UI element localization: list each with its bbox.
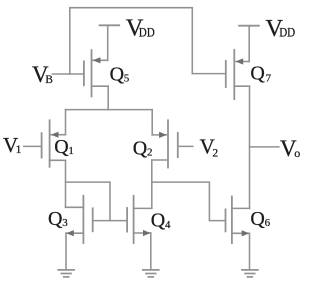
svg-text:Q: Q [133, 137, 148, 159]
svg-text:3: 3 [62, 217, 68, 229]
wire output tap to Vo [250, 146, 279, 148]
svg-text:Q: Q [48, 208, 63, 230]
wire Q7 drain down to Q6 drain (output node) [249, 86, 251, 208]
wire V1 to Q1 gate [24, 145, 42, 147]
wire Q2 drain down to Q4 drain [151, 160, 153, 208]
ground (Q6 source) [242, 270, 258, 277]
transistor Q5 (PMOS) [84, 50, 108, 96]
svg-text:Q: Q [110, 64, 125, 86]
svg-text:DD: DD [279, 25, 295, 40]
svg-text:7: 7 [266, 72, 272, 84]
wire tail to Q1 source [65, 110, 67, 135]
wire Q2/Q4 node to Q6 gate [152, 182, 226, 221]
ground (Q3 source) [58, 270, 74, 277]
transistor Q1 (PMOS) [42, 120, 66, 167]
transistor Q7 (PMOS) [226, 50, 250, 99]
wire Q7 gate lead [192, 73, 226, 75]
svg-text:1: 1 [16, 144, 22, 156]
wire Q5 drain to tail node [107, 86, 109, 109]
power VDD (right) [239, 25, 259, 27]
wire Q3/Q4 gate rail [93, 220, 127, 222]
wire tail rail [66, 109, 153, 111]
svg-text:B: B [45, 74, 53, 86]
svg-text:2: 2 [147, 147, 153, 159]
wire tail to Q2 source [151, 110, 153, 135]
wire Q1 drain branch to mirror gates [66, 182, 111, 221]
wire Q6 source to ground [249, 233, 251, 269]
svg-text:6: 6 [265, 217, 271, 229]
wire VB to Q5 gate [53, 73, 84, 75]
wire Q7 source to VDD [248, 26, 250, 62]
svg-text:1: 1 [68, 145, 74, 157]
svg-text:Q: Q [151, 210, 166, 232]
wire Q1 drain down to Q3 drain [65, 160, 67, 207]
wire Q5 source to VDD [107, 25, 109, 60]
transistor Q3 (NMOS mirrored) [66, 196, 93, 243]
wire Q2 gate lead to V2 [178, 145, 193, 147]
wire Q3 source to ground [65, 233, 67, 270]
svg-text:Q: Q [250, 208, 265, 230]
svg-text:DD: DD [139, 24, 155, 39]
svg-text:o: o [294, 146, 300, 160]
svg-text:Q: Q [250, 63, 265, 85]
svg-text:5: 5 [124, 73, 130, 85]
wire VB bias rail (VB node up over to Q7 gate) [70, 8, 193, 74]
transistor Q4 (NMOS) [127, 196, 152, 243]
ground (Q4 source) [143, 270, 159, 277]
svg-text:4: 4 [165, 219, 171, 231]
power VDD (left) [100, 24, 120, 26]
svg-text:Q: Q [54, 136, 69, 158]
wire Q4 source to ground [150, 233, 152, 270]
transistor Q2 (PMOS mirrored) [152, 120, 178, 167]
transistor Q6 (NMOS) [226, 197, 250, 244]
svg-text:2: 2 [212, 147, 218, 159]
